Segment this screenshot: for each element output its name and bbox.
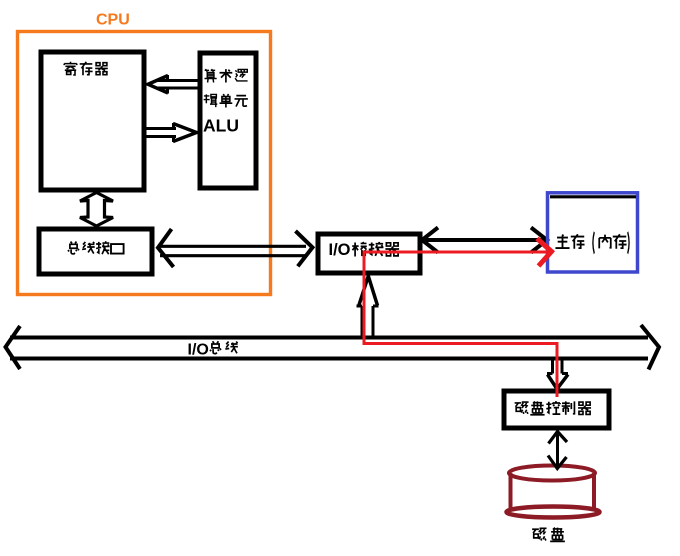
double hollow vertical arrow registers <-> bus interface bbox=[80, 193, 113, 227]
double arrow bus interface <-> I/O bridge bbox=[158, 229, 313, 267]
svg-text:I/O: I/O bbox=[188, 342, 209, 359]
double arrow disk controller <-> disk bbox=[548, 432, 567, 469]
disk cylinder (dark red) bbox=[507, 466, 600, 518]
box: registers 寄存器 bbox=[41, 52, 144, 190]
svg-text:CPU: CPU bbox=[96, 12, 130, 29]
I/O bus (long bar with arrows both ends) bbox=[6, 325, 660, 370]
arrow ALU to registers (hollow, points left) bbox=[148, 75, 199, 94]
text 寄存器 bbox=[64, 62, 108, 76]
text 总线接口 bbox=[68, 241, 124, 254]
double arrow I/O bridge <-> main memory bbox=[422, 228, 547, 253]
box: bus interface 总线接口 bbox=[39, 229, 152, 274]
svg-text:I/O: I/O bbox=[329, 241, 351, 259]
CPU block (orange) bbox=[18, 32, 271, 295]
label 磁盘 bbox=[532, 528, 565, 542]
hollow arrow bus -> disk controller (points down) bbox=[547, 358, 568, 389]
text 辑单元 bbox=[204, 94, 248, 107]
text 主存（内存） bbox=[555, 232, 629, 254]
red data path: disk controller -> bus -> bridge -> memory bbox=[364, 239, 557, 398]
hollow arrow bus -> I/O bridge (points up) bbox=[357, 276, 379, 338]
arrow registers to ALU (hollow, points right) bbox=[146, 123, 197, 142]
svg-text:ALU: ALU bbox=[203, 116, 239, 136]
box: main memory (blue) 主存（内存） bbox=[548, 193, 638, 272]
text 算术逻 bbox=[205, 69, 248, 82]
text 磁盘控制器 bbox=[515, 401, 591, 415]
box: ALU bbox=[200, 53, 256, 188]
box: disk controller 磁盘控制器 bbox=[504, 391, 609, 428]
black line under top edge of memory box bbox=[550, 195, 636, 198]
box: I/O bridge bbox=[318, 234, 420, 273]
